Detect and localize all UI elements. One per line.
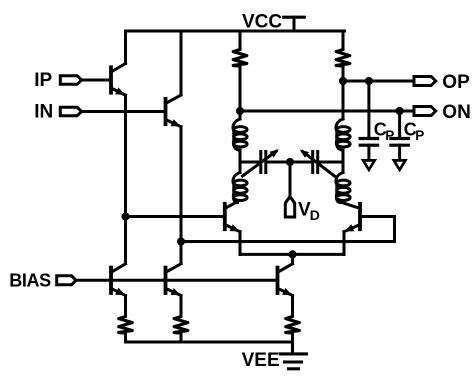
label VD [298, 199, 320, 223]
wire D1 to VD node [267, 161, 290, 164]
wire varactor row left segment [240, 161, 260, 164]
wire varactor node to L2 [239, 162, 242, 173]
wire Q2 collector to VCC rail [180, 31, 183, 95]
wire varactor node to L4 [342, 162, 345, 173]
wire QR base loop top [360, 215, 395, 218]
varactor D2 arrow [300, 150, 335, 177]
wire VD stem [289, 162, 292, 197]
node QL base tap [121, 212, 129, 220]
wire ON output line [240, 110, 415, 113]
wire OP output line [343, 80, 415, 83]
wire R4 to VEE rail [180, 333, 183, 342]
ground arrow CP2 [394, 160, 406, 169]
inductor L2 (left lower) [233, 173, 247, 203]
svg-text:IN: IN [34, 102, 53, 123]
wire OP node down to L3 [342, 81, 345, 119]
wire BIAS line [76, 279, 278, 282]
transistor Q7 [278, 264, 293, 296]
inductor L1 (left upper) [233, 119, 247, 150]
node tail junction [288, 250, 296, 258]
label CP2 [404, 120, 424, 143]
node QR base tap [177, 237, 185, 245]
wire QR emitter down [343, 232, 346, 255]
svg-text:OP: OP [442, 72, 470, 93]
wire CP2 top lead [398, 111, 401, 139]
wire Q1 collector to VCC rail [124, 31, 127, 64]
wire CP1 bottom lead [367, 145, 370, 163]
resistor R4 [174, 317, 188, 334]
wire R1 to ON node [239, 66, 242, 111]
pin IN [60, 107, 81, 116]
pin BIAS [57, 276, 76, 285]
wire R2 to OP node [342, 66, 345, 81]
pin IP [60, 76, 81, 85]
wire QL base line [126, 215, 225, 218]
varactor D2 plates [313, 152, 318, 173]
wire L1 to varactor node [239, 150, 242, 162]
svg-text:P: P [415, 128, 424, 143]
resistor R2 (right load) [336, 50, 350, 67]
svg-text:BIAS: BIAS [9, 271, 51, 291]
resistor R5 (tail) [286, 317, 300, 334]
VCC supply tap symbol [284, 17, 304, 31]
wire VCC rail to R2 [342, 31, 345, 50]
pin OP [414, 77, 436, 86]
wire R3 to VEE rail [124, 333, 127, 342]
wire VEE rail [126, 341, 293, 344]
wire Q5 emitter lead [124, 296, 127, 316]
transistor Q1 [111, 64, 126, 96]
wire emitter rail [240, 253, 344, 256]
wire CP2 bottom lead [398, 145, 401, 163]
transistor Q5 [111, 264, 126, 296]
svg-text:VCC: VCC [242, 12, 282, 33]
pin ON [414, 107, 436, 116]
capacitor CP1 [360, 139, 377, 146]
svg-text:IP: IP [34, 70, 52, 91]
node ON tap junction [236, 107, 244, 115]
svg-text:D: D [310, 207, 320, 223]
transistor QL (left core) [225, 202, 240, 232]
varactor D1 plates [261, 152, 266, 173]
wire Q1 emitter long vertical [124, 95, 127, 263]
wire R5 to VEE rail [291, 333, 294, 342]
ground symbol VEE [281, 342, 307, 369]
capacitor CP2 [391, 139, 408, 146]
wire IN to Q2 base [81, 110, 165, 113]
svg-text:VEE: VEE [242, 350, 280, 371]
node OP tap junction [339, 77, 347, 85]
label CP1 [374, 120, 394, 143]
wire QR base loop vertical [393, 217, 396, 242]
wire IP to Q1 base [81, 79, 111, 82]
wire VCC rail to R1 [239, 31, 242, 50]
wire Q7 emitter lead [291, 296, 294, 316]
inductor L4 (right lower) [336, 173, 350, 203]
svg-text:P: P [385, 128, 394, 143]
node CP1 tap [365, 77, 373, 85]
node CP2 tap [396, 107, 404, 115]
transistor QR (mirrored) [341, 202, 360, 232]
node VD junction [286, 158, 294, 166]
inductor L3 (right upper) [336, 119, 350, 150]
resistor R3 [119, 317, 133, 334]
wire tail down [291, 254, 294, 263]
resistor R1 (left load) [233, 50, 247, 67]
wire CP1 top lead [367, 81, 370, 139]
wire L3 to varactor node [342, 150, 345, 162]
pin VD (points up) [285, 197, 294, 218]
transistor Q6 [166, 264, 182, 296]
wire Q6 emitter lead [180, 296, 183, 316]
wire QL emitter down [239, 232, 242, 255]
wire VD node to D2 [290, 161, 312, 164]
ground arrow CP1 [363, 160, 375, 169]
wire ON node to L1 [239, 111, 242, 119]
transistor Q2 [166, 95, 182, 127]
wire D2 to right tank [319, 161, 343, 164]
wire VCC rail [126, 30, 345, 33]
wire Q2 emitter to QR base (long) [181, 240, 395, 243]
svg-text:ON: ON [442, 102, 471, 123]
varactor D1 arrow [243, 149, 279, 176]
wire Q2 emitter long vertical [180, 127, 183, 264]
